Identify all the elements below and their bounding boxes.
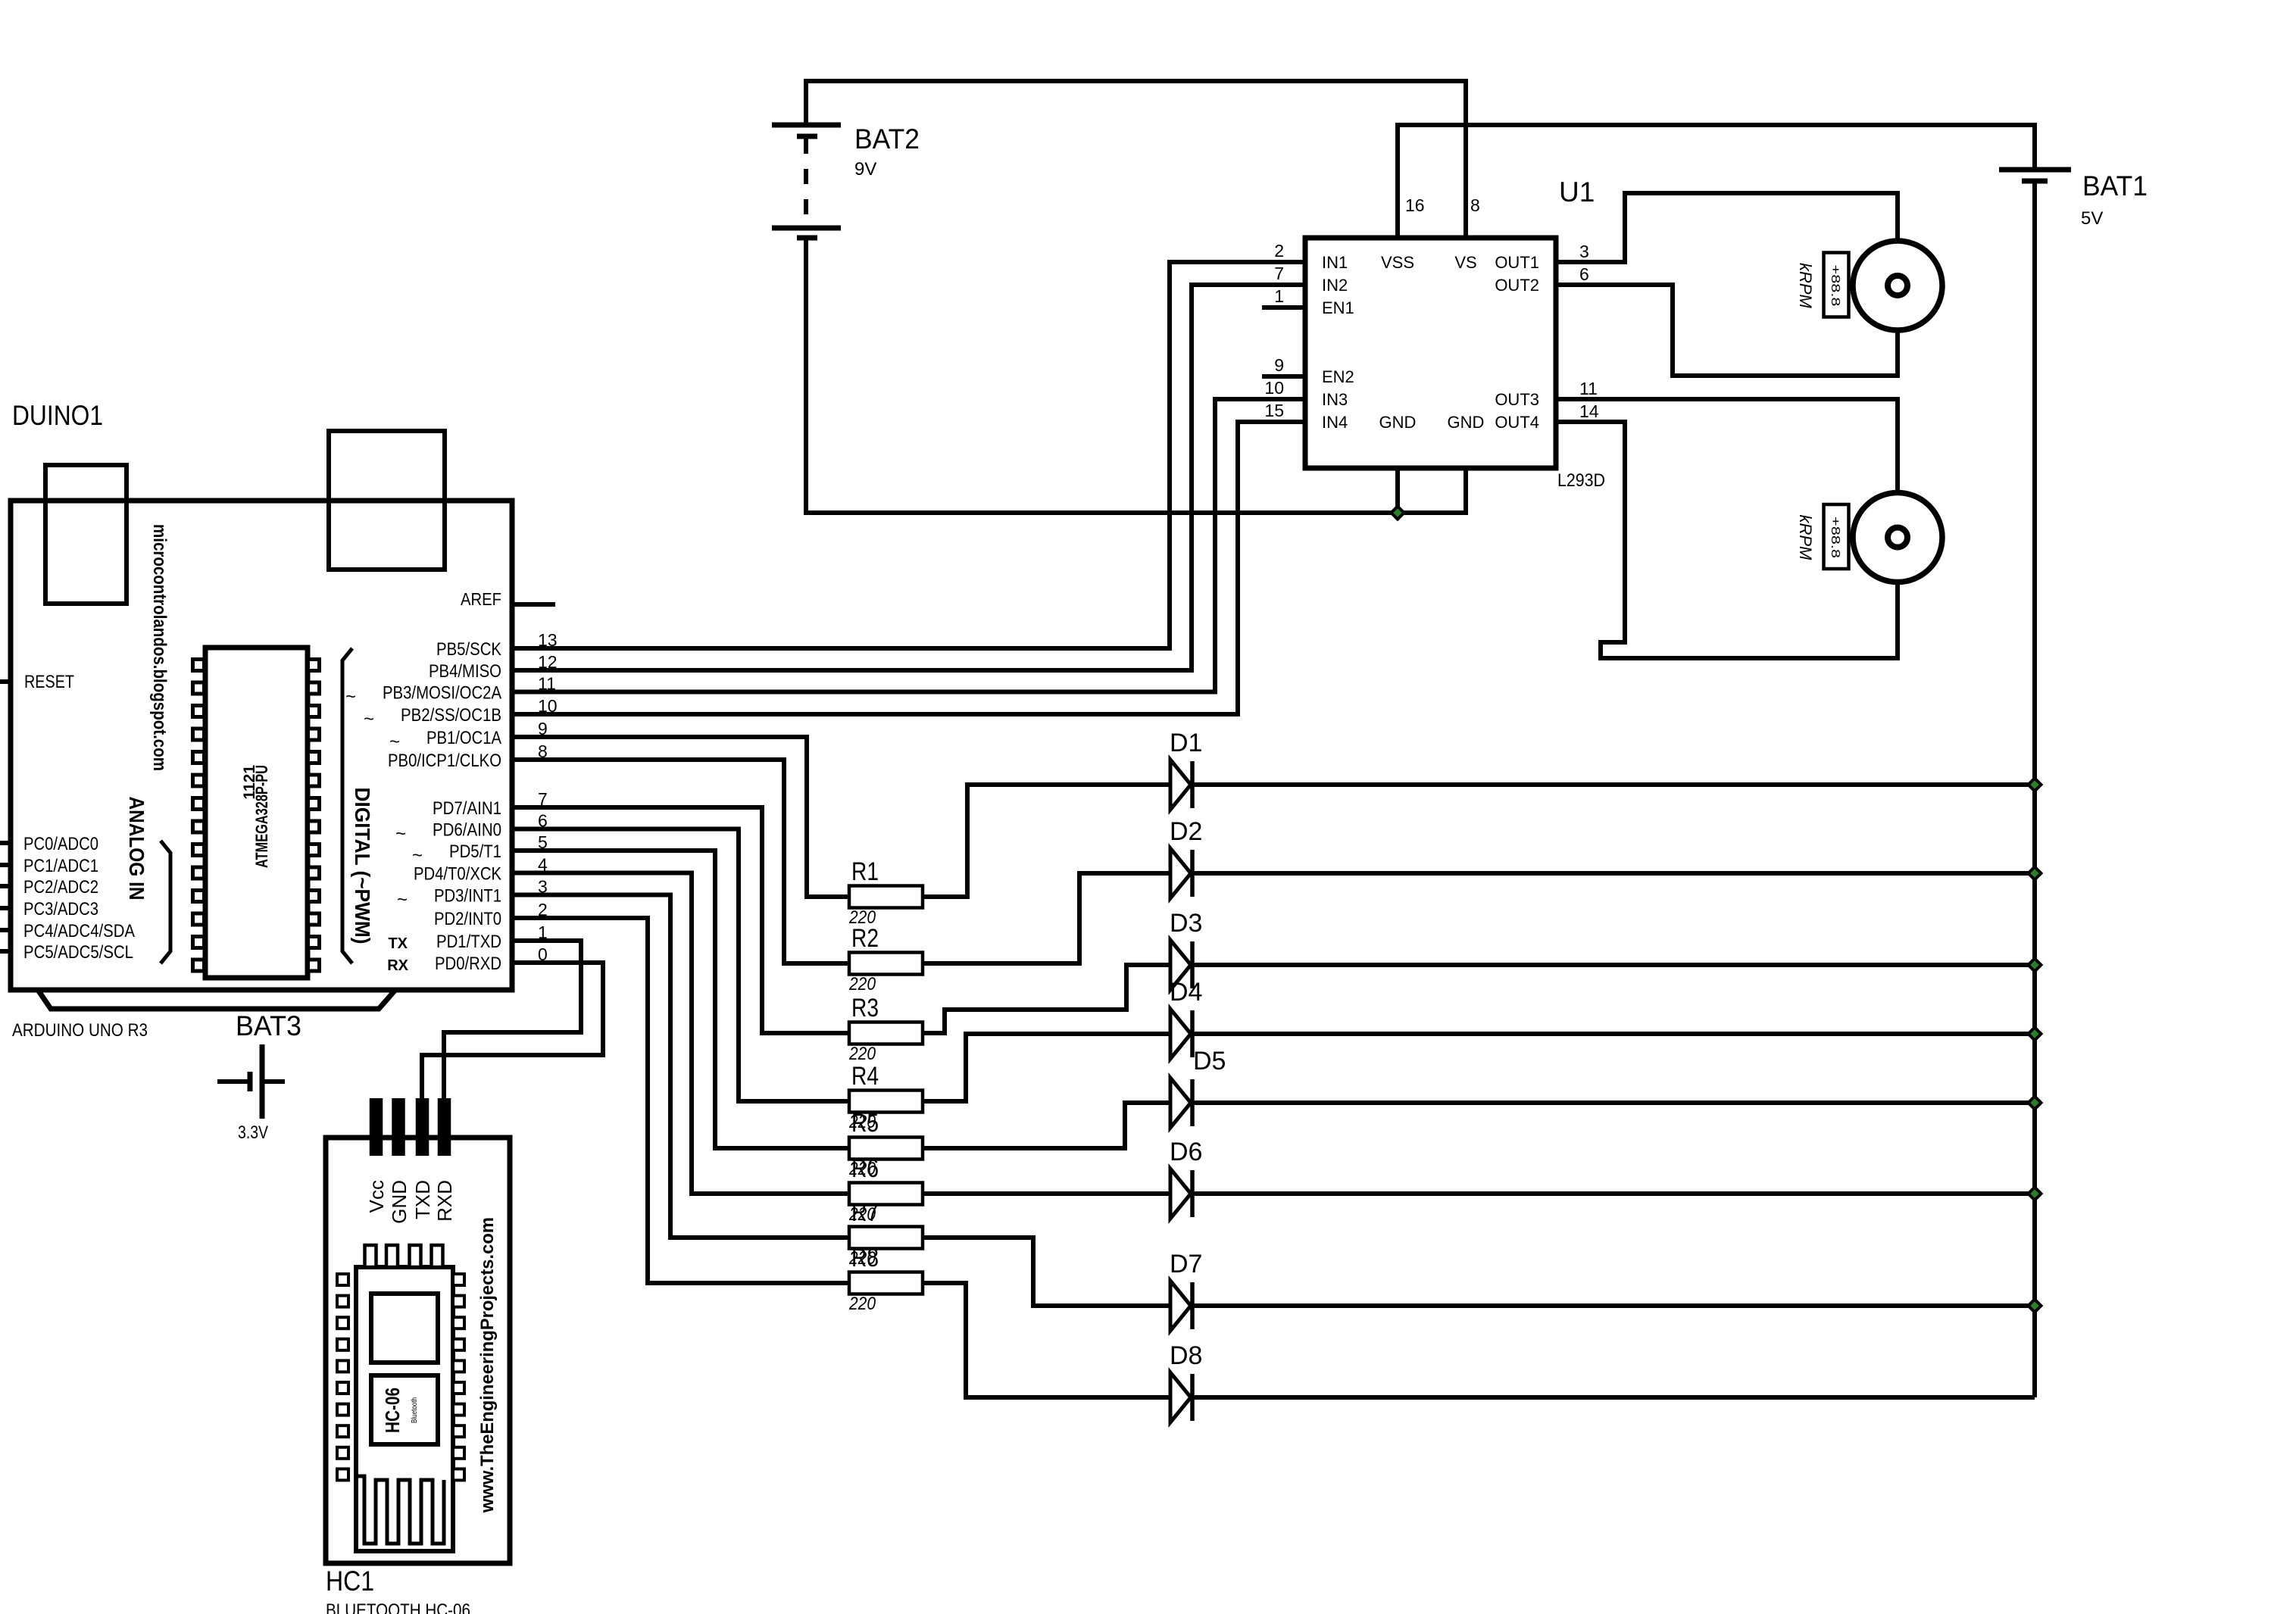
svg-text:9: 9 xyxy=(1274,355,1284,375)
svg-text:D5: D5 xyxy=(1193,1047,1226,1075)
svg-text:microcontrolandos.blogspot.com: microcontrolandos.blogspot.com xyxy=(149,524,170,771)
svg-text:OUT3: OUT3 xyxy=(1495,390,1539,409)
svg-text:DUINO1: DUINO1 xyxy=(12,400,103,431)
svg-text:D1: D1 xyxy=(1170,729,1202,757)
svg-text:BLUETOOTH HC-06: BLUETOOTH HC-06 xyxy=(326,1600,470,1614)
svg-text:+88.8: +88.8 xyxy=(1829,265,1841,307)
svg-text:D7: D7 xyxy=(1170,1250,1202,1278)
svg-text:8: 8 xyxy=(1470,195,1480,215)
svg-text:GND: GND xyxy=(388,1180,411,1224)
svg-text:D2: D2 xyxy=(1170,817,1202,846)
svg-text:EN2: EN2 xyxy=(1322,367,1354,386)
svg-text:L293D: L293D xyxy=(1557,470,1605,491)
svg-text:GND: GND xyxy=(1448,413,1485,432)
svg-text:IN3: IN3 xyxy=(1322,390,1348,409)
svg-text:EN1: EN1 xyxy=(1322,298,1354,317)
svg-text:BAT2: BAT2 xyxy=(854,123,920,155)
svg-text:RXD: RXD xyxy=(433,1180,456,1222)
svg-text:TXD: TXD xyxy=(411,1180,434,1219)
svg-text:9V: 9V xyxy=(854,159,876,180)
svg-text:PD6/AIN0: PD6/AIN0 xyxy=(433,820,501,841)
svg-text:R2: R2 xyxy=(851,924,879,953)
svg-text:PB3/MOSI/OC2A: PB3/MOSI/OC2A xyxy=(383,683,501,704)
svg-text:www.TheEngineeringProjects.com: www.TheEngineeringProjects.com xyxy=(477,1217,498,1513)
svg-text:DIGITAL (~PWM): DIGITAL (~PWM) xyxy=(351,788,374,944)
svg-text:RESET: RESET xyxy=(24,672,74,692)
svg-text:PB5/SCK: PB5/SCK xyxy=(436,639,501,660)
svg-text:220: 220 xyxy=(848,1044,876,1064)
svg-text:HC1: HC1 xyxy=(326,1566,374,1597)
svg-text:Bluetooth: Bluetooth xyxy=(410,1397,419,1423)
svg-text:D3: D3 xyxy=(1170,909,1202,938)
svg-text:VS: VS xyxy=(1454,253,1476,272)
svg-text:Vcc: Vcc xyxy=(365,1180,388,1213)
svg-text:1: 1 xyxy=(1274,286,1284,306)
svg-text:PB4/MISO: PB4/MISO xyxy=(429,661,501,682)
svg-text:R6: R6 xyxy=(851,1154,879,1183)
svg-text:2: 2 xyxy=(1274,241,1284,261)
svg-text:3: 3 xyxy=(1579,242,1589,261)
svg-text:+88.8: +88.8 xyxy=(1829,517,1841,558)
svg-text:D6: D6 xyxy=(1170,1138,1202,1166)
svg-text:HC-06: HC-06 xyxy=(381,1388,404,1433)
svg-text:220: 220 xyxy=(848,1294,876,1314)
svg-text:PD5/T1: PD5/T1 xyxy=(449,841,501,862)
svg-text:~: ~ xyxy=(345,687,356,707)
svg-text:~: ~ xyxy=(395,824,406,844)
svg-text:R5: R5 xyxy=(851,1109,879,1138)
svg-text:PD1/TXD: PD1/TXD xyxy=(436,932,501,952)
svg-text:RX: RX xyxy=(387,957,408,974)
svg-text:~: ~ xyxy=(397,890,408,910)
svg-text:7: 7 xyxy=(1274,264,1284,283)
svg-text:PC4/ADC4/SDA: PC4/ADC4/SDA xyxy=(23,921,135,941)
svg-text:PC0/ADC0: PC0/ADC0 xyxy=(23,834,98,854)
svg-text:D4: D4 xyxy=(1170,978,1202,1007)
svg-text:AREF: AREF xyxy=(461,589,501,609)
svg-text:GND: GND xyxy=(1379,413,1417,432)
svg-text:OUT4: OUT4 xyxy=(1495,413,1539,432)
svg-text:3.3V: 3.3V xyxy=(238,1122,268,1143)
svg-text:~: ~ xyxy=(389,732,400,752)
svg-text:PD2/INT0: PD2/INT0 xyxy=(434,909,501,929)
svg-text:PD3/INT1: PD3/INT1 xyxy=(434,886,501,907)
svg-text:R3: R3 xyxy=(851,994,879,1022)
svg-text:~: ~ xyxy=(364,709,374,729)
svg-text:BAT3: BAT3 xyxy=(236,1010,301,1041)
svg-text:BAT1: BAT1 xyxy=(2082,170,2148,201)
svg-text:VSS: VSS xyxy=(1381,253,1414,272)
svg-text:TX: TX xyxy=(388,935,408,952)
svg-text:PC2/ADC2: PC2/ADC2 xyxy=(23,877,98,898)
svg-text:OUT2: OUT2 xyxy=(1495,276,1539,295)
svg-text:~: ~ xyxy=(412,845,423,866)
svg-text:OUT1: OUT1 xyxy=(1495,253,1539,272)
svg-text:15: 15 xyxy=(1264,401,1284,420)
svg-text:ANALOG IN: ANALOG IN xyxy=(125,797,148,901)
svg-text:PC3/ADC3: PC3/ADC3 xyxy=(23,899,98,919)
svg-text:ATMEGA328P-PU: ATMEGA328P-PU xyxy=(252,765,271,868)
svg-text:11: 11 xyxy=(1579,379,1598,398)
svg-text:PB0/ICP1/CLKO: PB0/ICP1/CLKO xyxy=(388,751,501,771)
svg-text:PD7/AIN1: PD7/AIN1 xyxy=(433,798,501,819)
svg-text:U1: U1 xyxy=(1559,176,1595,208)
svg-text:PD0/RXD: PD0/RXD xyxy=(435,954,501,974)
svg-text:10: 10 xyxy=(1264,378,1284,398)
svg-text:R4: R4 xyxy=(851,1062,879,1091)
svg-text:16: 16 xyxy=(1405,195,1425,215)
svg-text:PB1/OC1A: PB1/OC1A xyxy=(426,728,501,748)
svg-text:kRPM: kRPM xyxy=(1796,515,1815,561)
svg-text:ARDUINO UNO R3: ARDUINO UNO R3 xyxy=(12,1020,148,1041)
svg-text:PC5/ADC5/SCL: PC5/ADC5/SCL xyxy=(23,942,133,963)
svg-text:R7: R7 xyxy=(851,1198,879,1227)
svg-text:R1: R1 xyxy=(851,857,879,886)
svg-text:6: 6 xyxy=(1579,264,1589,284)
svg-text:220: 220 xyxy=(848,974,876,994)
svg-text:IN2: IN2 xyxy=(1322,276,1348,295)
svg-text:PD4/T0/XCK: PD4/T0/XCK xyxy=(414,864,501,885)
svg-text:PC1/ADC1: PC1/ADC1 xyxy=(23,856,98,876)
svg-text:IN1: IN1 xyxy=(1322,253,1348,272)
svg-text:PB2/SS/OC1B: PB2/SS/OC1B xyxy=(401,705,501,726)
svg-text:14: 14 xyxy=(1579,401,1599,421)
svg-text:D8: D8 xyxy=(1170,1341,1202,1370)
svg-text:IN4: IN4 xyxy=(1322,413,1348,432)
svg-text:kRPM: kRPM xyxy=(1796,263,1815,309)
svg-text:R8: R8 xyxy=(851,1244,879,1272)
svg-text:5V: 5V xyxy=(2081,208,2103,229)
